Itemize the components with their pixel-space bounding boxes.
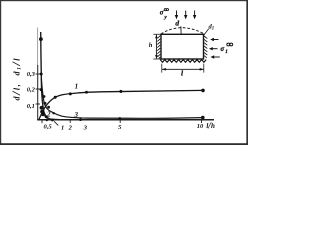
- right load arrow 1: [214, 39, 219, 41]
- top load arrow 2: [185, 11, 187, 16]
- x-axis: [37, 119, 214, 121]
- h dimension end caps: [153, 34, 161, 59]
- bottom edge hatching: [160, 60, 206, 63]
- curve 2 (steep, hugs y-axis then merges with x-axis): [41, 32, 95, 120]
- svg-text:σ: σ: [220, 46, 224, 53]
- curve 2 data points: [39, 37, 43, 41]
- svg-text:10: 10: [197, 123, 204, 130]
- svg-text:2: 2: [46, 110, 51, 118]
- svg-text:y: y: [163, 15, 167, 21]
- y axis quantity label d/l, d1/l (rotated): [11, 57, 23, 101]
- x tick 2: [69, 120, 71, 123]
- left edge hatching: [157, 36, 160, 59]
- dashed arc (bulge d) over plate top: [161, 28, 204, 34]
- h dimension line with arrows: [155, 35, 157, 59]
- curve 3 data points: [43, 95, 46, 98]
- l dimension arrow line: [162, 68, 204, 70]
- frame border: [1, 1, 248, 145]
- curve 1 (rising to plateau): [39, 90, 203, 119]
- top load arrow 1: [176, 11, 178, 16]
- sigma_x infinity symbol: [227, 43, 233, 46]
- svg-text:1: 1: [75, 83, 79, 91]
- sigma_y infinity symbol: [164, 9, 168, 11]
- curve 1 data points: [54, 96, 57, 99]
- x tick 10: [201, 120, 203, 123]
- svg-text:d: d: [175, 19, 179, 28]
- right load arrow 3: [214, 56, 220, 58]
- svg-text:0,2: 0,2: [27, 87, 36, 94]
- svg-text:3: 3: [74, 111, 79, 119]
- svg-text:0,1: 0,1: [27, 103, 35, 110]
- y tick 0,3: [36, 73, 40, 75]
- right load arrow 2: [212, 48, 217, 50]
- d1 leader line: [204, 29, 209, 36]
- svg-text:2: 2: [68, 124, 73, 131]
- y tick 0,1: [36, 103, 40, 105]
- plate rectangle: [161, 34, 204, 59]
- svg-text:0,5: 0,5: [44, 124, 53, 131]
- svg-text:1: 1: [61, 124, 64, 131]
- curve 3 (upper descending branch, stays just above axis): [41, 78, 202, 118]
- svg-text:σ: σ: [160, 10, 164, 17]
- x tick 5: [119, 120, 121, 123]
- x tick 0,5: [41, 120, 43, 123]
- tick from arc peak down to plate top: [180, 26, 182, 34]
- y-axis: [37, 28, 39, 67]
- svg-text:0,3: 0,3: [27, 71, 36, 78]
- svg-text:1: 1: [225, 50, 228, 55]
- l dimension extension lines: [162, 64, 204, 73]
- svg-text:3: 3: [83, 124, 88, 131]
- top load arrow 3: [194, 11, 196, 16]
- y tick 0,2: [36, 88, 40, 90]
- svg-text:h: h: [149, 42, 153, 49]
- right edge hatching: [204, 36, 207, 58]
- leader line for x label 1: [54, 121, 58, 125]
